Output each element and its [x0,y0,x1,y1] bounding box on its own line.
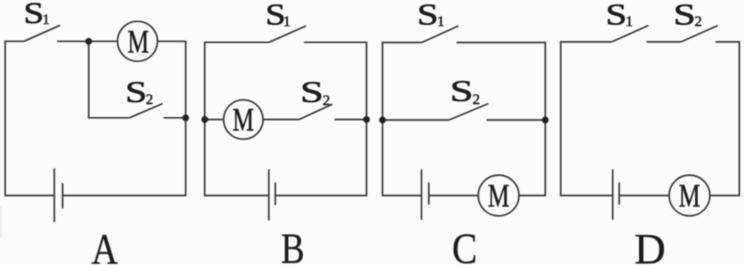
svg-text:C: C [452,226,477,265]
svg-text:1: 1 [283,14,291,30]
svg-text:2: 2 [695,14,703,30]
svg-text:B: B [281,226,305,265]
svg-text:S: S [300,74,324,109]
svg-text:S: S [606,0,628,31]
svg-text:S: S [417,0,439,31]
svg-text:2: 2 [473,92,481,108]
svg-text:S: S [450,73,474,108]
svg-text:2: 2 [146,92,154,108]
svg-text:M: M [679,178,701,214]
svg-text:1: 1 [42,12,50,28]
svg-text:D: D [634,226,665,265]
svg-text:M: M [233,103,255,139]
svg-text:2: 2 [323,93,331,109]
svg-text:1: 1 [437,14,445,30]
svg-text:S: S [673,0,696,31]
svg-text:S: S [24,0,45,30]
svg-text:S: S [125,74,147,109]
svg-text:A: A [91,226,117,265]
svg-text:M: M [127,24,149,60]
svg-text:1: 1 [626,14,634,30]
svg-text:M: M [488,178,510,214]
